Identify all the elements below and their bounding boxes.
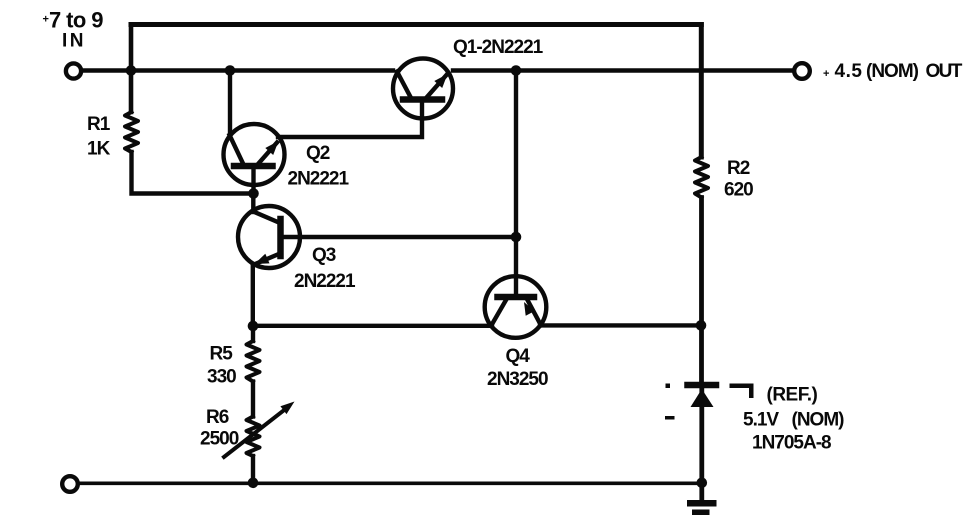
- transistor Q1 circle: [393, 59, 453, 119]
- svg-text:Q4: Q4: [506, 346, 531, 367]
- wire R6 bottom lead: [251, 456, 255, 483]
- svg-text:Q2: Q2: [306, 143, 330, 164]
- resistor R6 wiper arrow shaft: [224, 407, 288, 457]
- svg-text:R5: R5: [210, 344, 234, 365]
- wire R5 to R6: [251, 382, 255, 417]
- transistor Q3 emitter arrowhead: [255, 254, 270, 264]
- wire node to Q3 collector: [251, 194, 255, 213]
- transistor Q2 emitter arrowhead: [265, 141, 278, 155]
- terminal IN: [66, 63, 81, 78]
- zener plus mark: [666, 384, 671, 389]
- transistor Q4 circle: [485, 276, 547, 338]
- svg-text:+4.5(NOM)OUT: +4.5(NOM)OUT: [823, 61, 963, 82]
- wire Q3 emitter lead down to node: [251, 265, 255, 327]
- transistor Q2 emitter stroke: [259, 143, 278, 164]
- reference pointer bracket: [730, 384, 754, 399]
- transistor Q1 collector stroke: [397, 72, 411, 98]
- svg-text:2N3250: 2N3250: [487, 369, 548, 390]
- svg-text:R6: R6: [206, 407, 229, 428]
- resistor R1: [125, 112, 138, 152]
- transistor Q2 base bar: [234, 163, 273, 170]
- svg-text:IN: IN: [62, 31, 86, 52]
- resistor R6 (variable): [247, 417, 260, 457]
- transistor Q4 collector stroke: [491, 300, 506, 326]
- junction node Q4 emitter / right rail: [696, 320, 707, 331]
- terminal OUT: [794, 63, 810, 79]
- wire left vertical x=131 (top rail to R1): [129, 25, 134, 113]
- transistor Q4 emitter stroke: [528, 300, 542, 325]
- junction node right rail / bottom rail: [697, 478, 708, 489]
- wire R2 bottom to zener: [699, 198, 704, 383]
- junction node at top rail x=516: [511, 65, 522, 76]
- svg-text:Q3: Q3: [312, 245, 336, 266]
- svg-text:R2: R2: [727, 158, 750, 179]
- wire node to Q4 collector: [253, 324, 492, 328]
- svg-text:7 to 9: 7 to 9: [49, 8, 103, 33]
- transistor Q3 base bar (vertical): [277, 219, 284, 256]
- wire R1 bottom lead and run to Q2 base node: [132, 152, 254, 194]
- junction node at input rail x=230: [225, 65, 236, 76]
- wire right vertical x=700.5 (top loop to R2): [699, 25, 704, 158]
- wire main top rail right of Q1: [453, 68, 793, 72]
- terminal common (bottom left): [62, 476, 78, 492]
- transistor Q3 circle: [238, 206, 300, 268]
- svg-text:2N2221: 2N2221: [288, 168, 350, 189]
- resistor R6 arrowhead: [280, 402, 294, 415]
- wire bottom rail: [78, 481, 702, 485]
- transistor Q1 base bar: [403, 96, 442, 103]
- wire zener to bottom node: [699, 390, 704, 483]
- svg-text:5.1V(NOM): 5.1V(NOM): [743, 410, 844, 431]
- svg-text:Q1-2N2221: Q1-2N2221: [453, 37, 544, 58]
- junction node at input rail x=131: [126, 65, 137, 76]
- junction node Q3 base / Q4 base: [511, 232, 522, 243]
- transistor Q3 emitter stroke: [254, 254, 280, 265]
- wire top loop horizontal y=24.5: [131, 22, 701, 27]
- transistor Q4 base bar: [498, 294, 535, 301]
- zener diode CR1 cathode bar: [688, 382, 717, 389]
- svg-text:2500: 2500: [200, 428, 239, 449]
- svg-text:(REF.): (REF.): [767, 385, 818, 406]
- wire vertical x=516 from top rail to Q4 base: [514, 71, 518, 295]
- svg-text:1K: 1K: [87, 139, 111, 160]
- zener diode triangle: [691, 389, 714, 407]
- wire Q2 emitter to Q1 base: [278, 103, 422, 137]
- junction node R5 / Q4 collector: [248, 321, 259, 332]
- svg-text:R1: R1: [87, 114, 111, 135]
- transistor Q2 circle: [224, 124, 285, 185]
- transistor Q2 collector stroke: [230, 135, 244, 164]
- ground lead stub: [699, 483, 704, 501]
- transistor Q1 emitter arrowhead: [434, 74, 447, 88]
- zener minus mark: [665, 416, 675, 420]
- wire Q4 emitter to right rail: [540, 323, 701, 327]
- resistor R2: [695, 157, 708, 198]
- wire Q2 base lead to node: [251, 169, 255, 194]
- transistor Q4 emitter arrowhead (PNP, points toward base bar): [524, 302, 535, 316]
- ground bar 1: [687, 500, 717, 507]
- wire Q3 base run to x=516: [283, 235, 516, 239]
- transistor Q1 emitter stroke: [427, 76, 446, 98]
- junction node R6 bottom / bottom rail: [248, 478, 259, 489]
- resistor R5: [247, 341, 260, 382]
- transistor Q3 collector stroke: [253, 212, 280, 224]
- junction node Q2 base / R1: [248, 188, 259, 199]
- wire vertical x=230 (rail to Q2 collector): [228, 71, 232, 136]
- svg-text:330: 330: [207, 367, 236, 388]
- wire main top rail y=71: [83, 68, 393, 72]
- svg-text:1N705A-8: 1N705A-8: [752, 432, 831, 453]
- svg-text:620: 620: [724, 180, 753, 201]
- ground bar 2: [692, 510, 710, 516]
- svg-text:2N2221: 2N2221: [294, 271, 356, 292]
- svg-text:+: +: [43, 14, 49, 26]
- wire R5 top lead: [251, 326, 255, 341]
